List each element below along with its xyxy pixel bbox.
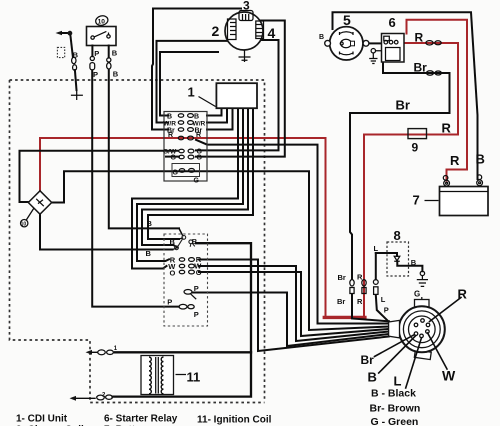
svg-text:B: B [411, 258, 417, 267]
svg-text:11- Ignition Coil: 11- Ignition Coil [197, 415, 272, 426]
svg-text:B: B [170, 238, 176, 247]
svg-text:O: O [196, 268, 202, 277]
svg-text:P: P [194, 284, 199, 293]
svg-text:R: R [196, 132, 201, 139]
svg-text:P: P [93, 70, 98, 79]
svg-text:B: B [147, 219, 153, 228]
svg-text:O: O [170, 268, 176, 277]
svg-text:W/R: W/R [193, 120, 206, 127]
svg-text:P: P [194, 310, 199, 319]
svg-text:W/R: W/R [163, 120, 176, 127]
svg-text:L: L [374, 244, 379, 253]
svg-text:B: B [146, 249, 152, 258]
svg-text:B: B [113, 70, 119, 79]
svg-text:B: B [192, 237, 198, 246]
svg-text:8: 8 [394, 228, 401, 243]
svg-text:R: R [415, 31, 424, 45]
svg-text:9: 9 [412, 141, 419, 155]
svg-text:Br: Br [337, 297, 345, 306]
svg-text:G: G [197, 154, 203, 161]
svg-text:4: 4 [268, 25, 276, 41]
svg-text:P: P [384, 305, 389, 314]
svg-text:2: 2 [212, 23, 220, 39]
svg-text:Br: Br [396, 98, 410, 113]
svg-text:P: P [94, 49, 99, 58]
svg-text:W: W [442, 368, 456, 384]
svg-text:1- CDI Unit: 1- CDI Unit [16, 414, 68, 425]
svg-text:6: 6 [389, 15, 396, 30]
svg-text:R: R [458, 287, 468, 302]
svg-text:L: L [394, 374, 402, 389]
svg-text:B: B [194, 113, 199, 120]
svg-text:1: 1 [188, 85, 195, 100]
svg-text:Br: Br [361, 353, 375, 367]
svg-text:B: B [112, 49, 118, 58]
svg-text:R: R [450, 153, 460, 168]
svg-text:6- Starter Relay: 6- Starter Relay [104, 414, 178, 425]
svg-text:R: R [168, 132, 173, 139]
svg-text:B: B [319, 34, 324, 41]
svg-text:G - Green: G - Green [371, 416, 419, 426]
svg-text:5: 5 [343, 12, 351, 28]
svg-text:Br: Br [338, 273, 346, 282]
svg-text:B: B [476, 152, 485, 167]
svg-text:R: R [357, 272, 363, 281]
svg-text:G: G [414, 289, 420, 298]
svg-text:P: P [167, 297, 172, 306]
svg-text:L: L [381, 295, 386, 304]
svg-text:G: G [194, 178, 200, 185]
svg-text:B - Black: B - Black [371, 388, 416, 400]
svg-text:R: R [442, 121, 452, 136]
svg-text:3: 3 [243, 0, 250, 13]
svg-text:B: B [73, 51, 79, 60]
svg-text:B: B [167, 113, 172, 120]
svg-text:G: G [171, 155, 177, 162]
svg-text:Br: Br [414, 61, 428, 75]
svg-text:Br- Brown: Br- Brown [370, 403, 421, 415]
svg-text:7: 7 [413, 193, 420, 208]
svg-text:10: 10 [98, 19, 106, 26]
svg-text:G: G [173, 169, 179, 176]
svg-text:11: 11 [187, 370, 201, 385]
svg-text:R: R [357, 297, 363, 306]
svg-text:10: 10 [21, 222, 27, 228]
svg-text:B: B [368, 370, 377, 385]
